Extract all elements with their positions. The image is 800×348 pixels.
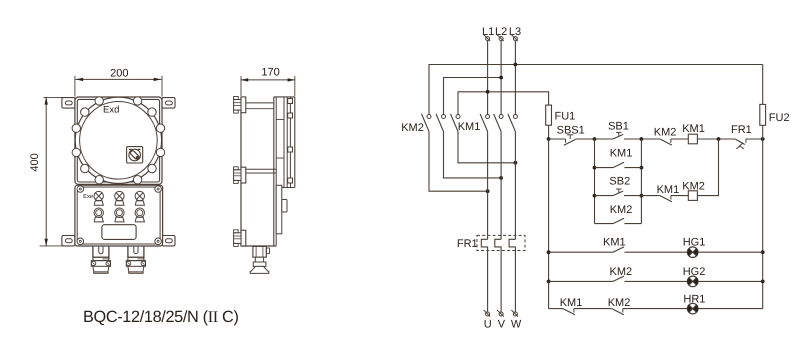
thermal contact FR1 (NC) [735,139,746,149]
terminal U [484,310,491,317]
lamp HR1 [687,303,698,314]
node L2 label [495,26,507,38]
svg-text:FR1: FR1 [457,238,478,250]
lower cover bolt bottom-right [155,238,162,245]
lamp HR1 label [683,293,705,305]
side view flange divider lines [276,120,284,159]
aux contact KM1 (NC, HR1 rung) [563,309,575,315]
contactor KM2 pole 3 [451,114,461,132]
wire rung1 segment h [746,138,763,140]
side view bottom edge [241,245,276,247]
dimension 200 line [75,76,162,96]
lamp HG1 label [683,237,706,249]
holding contact KM2 (NO) [613,218,624,223]
holding contact KM1 (NO) [613,162,624,167]
rotary switch handle [127,147,143,163]
side view flange bolt 4 [288,178,293,183]
wire branch vertical left [594,139,596,224]
node L3 label [509,26,521,38]
enclosure lower cover plate [77,187,160,244]
junction KM2/KM1 phase1 [486,189,490,193]
aux contact KM2 label (HR1 rung) [608,297,631,309]
wire KM2 pole2 output [444,132,502,178]
aux contact KM1 label (HR1 rung) [560,297,583,309]
wire branch vertical right [640,139,642,224]
indicator I2 [115,208,124,222]
side view body front wall [274,97,276,246]
svg-text:FU1: FU1 [555,111,576,123]
cover bolts (12x) [72,97,165,184]
junction left rail HG1 [547,250,551,254]
indicator I1 [94,208,103,222]
button B2 (screw head) [115,191,124,205]
terminal V [497,310,504,317]
wire rung1 segment c [595,138,614,140]
wire KM1 pole1 to FR1 [487,132,489,240]
wire HR1 segment d [698,308,763,310]
contactor KM1 pole 1 [480,114,490,132]
dimension 170 label [261,67,279,79]
contactor KM2 label [401,122,424,134]
interlock contact KM1 label [657,184,680,196]
svg-text:170: 170 [261,67,279,79]
side view top edge [274,96,295,98]
junction SB1 branch left [593,137,597,141]
svg-text:KM1: KM1 [560,297,583,309]
lower cover bolt top-left [77,186,84,193]
wire left rail upper [548,125,550,139]
enclosure upper body inner wall [77,99,159,182]
wire L1 drop [487,41,489,115]
dimension 170 line [241,77,295,96]
svg-text:Exe: Exe [83,194,93,200]
side top face lines [246,103,274,109]
svg-text:KM1: KM1 [458,121,481,133]
wire bus L3 feed [429,65,763,115]
wire right rail upper [762,65,764,105]
lamp HG2 [687,276,698,287]
node W label [511,318,522,330]
wire HR1 segment a [549,308,563,310]
side lower door panel [276,185,282,234]
wire W drop [514,251,516,312]
wire KM1 pole2 to FR1 [500,132,502,240]
wire rung1 segment f [671,138,688,140]
fuse FU2 label [769,112,790,124]
wire HG2 segment c [698,280,763,282]
lower cover bolt top-right [155,186,162,193]
junction left rail HG2 [547,280,551,284]
svg-text:KM1: KM1 [610,148,633,160]
svg-text:SB2: SB2 [609,176,630,188]
wire HG2 segment b [625,280,688,282]
contactor KM2 pole 1 [422,114,432,132]
enclosure upper body outline [75,97,162,184]
holding contact KM1 label [610,148,633,160]
svg-text:KM1: KM1 [682,123,705,135]
label Exe [83,194,93,200]
side door latch [282,200,287,213]
svg-text:KM2: KM2 [610,204,633,216]
coil KM1 [688,134,697,144]
junction L2-bus [499,76,503,80]
wire right rail lower [762,125,764,308]
button B3 (screw head) [135,191,144,205]
start button SB1 label [608,121,629,133]
aux contact KM1 (NO, HG1 rung) [613,247,624,252]
node U label [484,318,492,330]
junction SB1 branch right [640,137,644,141]
wire L2 drop [500,41,502,115]
junction branch right br1 [640,166,644,170]
terminal L3 [511,35,518,42]
side view flange bolt 3 [288,147,293,152]
wire rung2 segment c [671,195,688,197]
svg-text:KM2: KM2 [608,297,631,309]
contactor KM1 pole 2 [494,114,504,132]
start button SB2 [613,189,623,196]
lamp HG2 label [683,266,706,278]
side view flange bolt 1 [288,99,293,104]
button B1 (screw head) [94,191,103,205]
stop button SBS1 label [557,124,585,136]
wire br2 segment a [595,223,614,225]
side mounting bracket bottom [234,230,246,247]
wire br2 segment b [625,223,642,225]
interlock contact KM1 (NC) [660,196,672,202]
svg-text:KM2: KM2 [609,266,632,278]
junction branch left rung2 [593,194,597,198]
node L1 label [482,26,494,38]
side view flange ring [284,97,290,188]
product model text [83,307,239,326]
round cover inner circle [80,102,158,180]
dimension 200 label [110,68,128,80]
side mounting bracket top [234,97,246,114]
wire HG1 segment c [698,251,763,253]
mounting tab bottom-left [62,236,75,246]
nameplate [102,225,136,240]
svg-text:SB1: SB1 [608,121,629,133]
svg-text:FR1: FR1 [731,124,752,136]
mounting tab top-left [62,98,75,109]
fuse FU2 [760,104,766,125]
junction KM2/KM1 phase2 [499,176,503,180]
junction right rail HG1 [761,250,765,254]
terminal L2 [497,35,504,42]
junction left rail rung1 [547,137,551,141]
wire HR1 segment c [623,308,688,310]
junction coil rail rung1 [717,137,721,141]
coil KM2 [688,191,697,201]
svg-text:KM1: KM1 [657,184,680,196]
wire HR1 segment b [574,308,612,310]
junction right rail rung1 [761,137,765,141]
aux contact KM2 (NO, HG2 rung) [613,276,624,281]
cable gland (side view) [250,246,269,273]
junction KM2/KM1 phase3 [514,161,518,165]
wire rung1 segment b [576,138,595,140]
fuse FU1 label [555,111,576,123]
contactor KM1 label [458,121,481,133]
svg-text:KM1: KM1 [603,237,626,249]
thermal contact FR1 label [731,124,752,136]
svg-text:KM2: KM2 [654,126,677,138]
side view cover face [294,97,296,188]
thermal relay FR1 enclosure (dashed) [477,235,525,250]
svg-text:W: W [511,318,522,330]
svg-text:KM2: KM2 [401,122,424,134]
holding contact KM2 label [610,204,633,216]
enclosure lower body outline [75,185,163,246]
indicator I3 [135,208,144,222]
junction L3-bus [514,63,518,67]
wire HG2 segment a [549,280,613,282]
thermal relay FR1 heater elements [481,239,515,250]
coil KM1 label [682,123,705,135]
wire rung2 segment a [595,195,614,197]
wire L3 drop [514,41,516,115]
contactor KM2 pole 2 [436,114,446,132]
wire rung2 segment b [624,195,660,197]
start button SB2 label [609,176,630,188]
junction branch left br1 [593,166,597,170]
aux contact KM2 label (HG2 rung) [609,266,632,278]
mounting tab bottom-right [162,236,175,246]
fuse FU1 [546,105,552,125]
cable gland right (front view) [126,247,145,274]
wire rung2 segment d [697,139,718,196]
wire KM2 pole3 output [458,132,515,163]
wire KM2 pole1 output [429,132,488,192]
side view back wall [240,97,242,246]
side view cover bottom [276,187,295,189]
node V label [498,318,506,330]
wire rung1 segment e [641,138,660,140]
stop button SBS1 [564,135,576,146]
svg-text:U: U [484,318,492,330]
svg-text:200: 200 [110,68,128,80]
svg-text:400: 400 [29,153,41,171]
terminal L1 [484,35,491,42]
terminal W [511,310,518,317]
side mounting bracket middle [234,167,246,184]
junction branch right rung2 [640,194,644,198]
wire HG1 segment b [625,251,688,253]
wire rung1 segment g [697,138,735,140]
mounting tab top-right [162,98,175,109]
contactor KM1 pole 3 [508,114,518,132]
interlock contact KM2 (NC) [660,139,672,145]
wire br1 segment a [595,167,614,169]
svg-text:FU2: FU2 [769,112,790,124]
round cover outer circle [75,97,161,183]
thermal relay FR1 label [457,238,478,250]
wire bus L2 feed [444,78,502,115]
dimension 400 line [40,97,74,246]
wire left rail lower [548,139,550,309]
wire rung1 segment d [624,138,641,140]
side view flange bolt 2 [288,113,293,118]
wire br1 segment b [625,167,642,169]
interlock contact KM2 label [654,126,677,138]
label Exd [103,105,119,116]
junction right rail HG2 [761,280,765,284]
wire V drop [500,251,502,312]
wire U drop [487,251,489,312]
aux contact KM2 (NC, HR1 rung) [612,309,624,315]
start button SB1 [613,132,623,139]
wire bus L1 feed [458,92,549,115]
aux contact KM1 label (HG1 rung) [603,237,626,249]
side middle shelf lines [246,169,276,173]
wire KM1 pole3 to FR1 [514,132,516,240]
svg-text:V: V [498,318,506,330]
coil KM2 label [682,180,705,192]
wire rung1 segment a [549,138,566,140]
lower cover bolt bottom-left [77,238,84,245]
svg-text:Exd: Exd [103,105,119,116]
junction L1-bus [486,90,490,94]
svg-text:BQC-12/18/25/N (II C): BQC-12/18/25/N (II C) [83,307,239,326]
dimension 400 label [29,153,41,171]
wire HG1 segment a [549,251,613,253]
cable gland left (front view) [91,247,110,274]
lamp HG1 [687,247,698,258]
